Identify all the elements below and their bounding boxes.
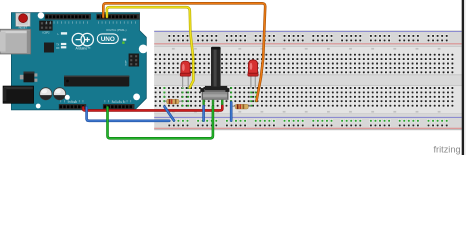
LED2 red xyxy=(248,60,258,89)
power / analog labels xyxy=(60,100,131,104)
svg-text:ICSP2: ICSP2 xyxy=(43,32,51,35)
potentiometer RV1 legs xyxy=(203,98,224,105)
svg-text:ICSP: ICSP xyxy=(126,60,128,66)
wire blue GND from Arduino to bottom rail xyxy=(87,107,170,121)
digital pin labels xyxy=(46,21,135,32)
bottom pin header strips xyxy=(59,104,135,110)
wire blue jumper resistor column to bottom rail xyxy=(230,102,233,120)
UNO badge xyxy=(97,34,118,44)
resistor R2 (LED2 series) row j xyxy=(233,104,252,109)
bottom rail holes (upper row highlighted green) xyxy=(168,119,448,127)
ON LED indicator xyxy=(122,39,126,44)
Arduino infinity logo xyxy=(72,33,93,45)
wire blue jumper row j to bottom rail (diagonal) xyxy=(165,107,175,121)
electrolytic capacitors xyxy=(40,88,52,100)
LED1 red xyxy=(180,61,190,88)
wire green A0 from Arduino under board to pot wiper column xyxy=(108,106,213,138)
svg-text:RESET: RESET xyxy=(19,26,28,30)
svg-text:DIGITAL (PWM~): DIGITAL (PWM~) xyxy=(106,28,126,32)
mounting holes xyxy=(36,12,148,108)
main breadboard grid holes xyxy=(154,53,454,107)
window edge dark line xyxy=(462,0,466,155)
column number markings xyxy=(172,48,441,113)
reset button xyxy=(16,13,30,30)
svg-text:fritzing: fritzing xyxy=(434,144,461,154)
ICSP header right (2x3) xyxy=(126,54,140,67)
wire red 5V from Arduino to breadboard row j xyxy=(83,106,222,111)
USB connector xyxy=(0,29,31,54)
ATmega328 DIP chip xyxy=(64,76,129,87)
wire blue jumper pot column to bottom rail xyxy=(202,106,205,121)
top rail holes xyxy=(168,34,448,42)
resistor R1 (LED1 series) row i xyxy=(165,99,183,104)
potentiometer RV1 body xyxy=(200,86,229,100)
TX RX indicator chip xyxy=(44,32,67,52)
ICSP2 header (2x3) xyxy=(39,21,52,35)
bottom power rail blue and red stripe xyxy=(154,117,462,128)
wire orange from Arduino D-pin over top to LED2 column xyxy=(103,3,265,101)
Arduino UNO board xyxy=(11,13,146,110)
top pin header strips xyxy=(45,14,140,20)
wire yellow from Arduino D-pin over top to LED1 column xyxy=(107,7,193,87)
voltage regulator xyxy=(20,72,38,83)
potentiometer RV1 shaft xyxy=(211,47,221,87)
green highlighted connected holes xyxy=(163,87,256,107)
power jack xyxy=(3,86,34,103)
svg-text:Arduino™: Arduino™ xyxy=(75,47,90,51)
svg-text:RX: RX xyxy=(56,47,60,50)
breadboard body xyxy=(154,30,462,130)
top power rail red and blue stripe xyxy=(154,32,462,44)
svg-text:UNO: UNO xyxy=(101,36,115,43)
svg-text:POWER: POWER xyxy=(68,101,78,104)
